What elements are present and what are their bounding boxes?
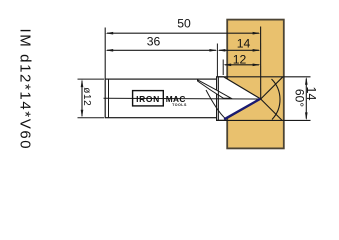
dim phi12 extension top — [78, 78, 105, 80]
cutter head silhouette — [217, 77, 261, 121]
groove top cut line — [217, 76, 311, 78]
dim 50 line — [105, 32, 260, 35]
shank body — [105, 79, 216, 118]
extension line head start — [216, 44, 218, 77]
dim phi12 extension bottom — [78, 117, 105, 119]
angle prolongation line upper — [261, 77, 283, 99]
wood block W1 — [227, 20, 284, 149]
dim phi12 line — [81, 79, 84, 118]
carbide cutting edge (navy) — [224, 99, 260, 120]
svg-text:IM d12*14*V60: IM d12*14*V60 — [17, 29, 34, 151]
dim 14 top line — [217, 49, 260, 52]
extension line tip apex — [260, 27, 262, 100]
angle prolongation line lower — [261, 99, 282, 120]
svg-text:12: 12 — [233, 52, 247, 66]
shank chamfer line — [108, 79, 110, 117]
svg-text:14: 14 — [237, 37, 251, 51]
svg-text:ø12: ø12 — [81, 87, 92, 106]
svg-text:TOOLS: TOOLS — [172, 103, 187, 107]
svg-text:36: 36 — [147, 34, 161, 48]
extension line left (tool left end) — [104, 28, 106, 80]
head step line — [217, 77, 219, 121]
svg-text:IRON: IRON — [136, 94, 160, 104]
lower flute gash — [206, 90, 226, 119]
centerline — [104, 97, 261, 100]
extension line cone base — [222, 60, 224, 76]
dim 36 line — [105, 49, 217, 52]
svg-text:60°: 60° — [293, 89, 307, 107]
svg-text:50: 50 — [177, 17, 191, 31]
groove bottom cut line — [217, 119, 311, 121]
dim 14 right line — [305, 77, 308, 121]
angle arc — [272, 79, 280, 120]
flute face lens — [198, 80, 232, 99]
logo IRONMAC box — [133, 91, 164, 106]
dim 12 top line — [223, 64, 260, 67]
